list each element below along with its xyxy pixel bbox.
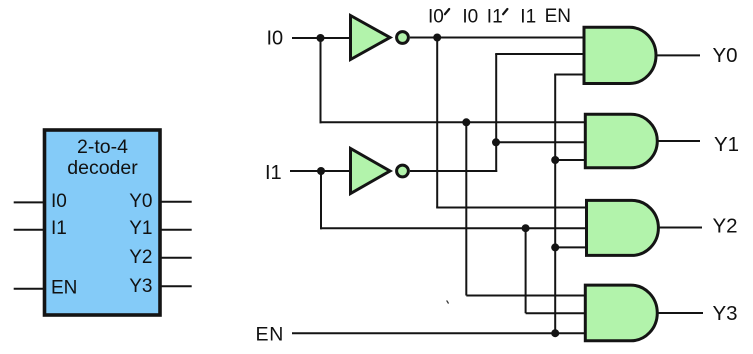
wire G3 output to Y2 xyxy=(658,227,703,229)
AND gate G4 (Y3) xyxy=(585,285,657,341)
stray mark xyxy=(447,301,448,303)
wire G2 output to Y1 xyxy=(657,140,701,142)
wire I1 vertical rail xyxy=(525,228,527,313)
svg-text:Y3: Y3 xyxy=(129,276,152,297)
wire I0 horizontal to AND gate G4 xyxy=(466,295,585,297)
svg-text:Y1: Y1 xyxy=(129,218,152,239)
svg-text:I0: I0 xyxy=(51,191,67,212)
svg-text:2-to-4: 2-to-4 xyxy=(77,136,128,158)
wire I0 horizontal to AND gate G2 xyxy=(320,121,586,123)
junction dot EN on EN line xyxy=(551,329,559,337)
wire I1 horizontal to AND gate G4 xyxy=(526,312,585,314)
svg-text:Y0: Y0 xyxy=(713,44,738,67)
svg-text:I1: I1 xyxy=(520,7,536,28)
inverter U3 bubble xyxy=(397,165,409,177)
wire inverter U3 output (I1' line) xyxy=(410,170,497,172)
wire pin Y3 right xyxy=(161,285,192,287)
svg-text:EN: EN xyxy=(51,278,77,299)
wire I0' vertical rail xyxy=(436,38,438,208)
wire I1' vertical rail xyxy=(495,54,497,172)
svg-text:Y3: Y3 xyxy=(713,302,738,325)
wire I0 vertical rail xyxy=(465,122,467,295)
wire G4 output to Y3 xyxy=(657,312,704,314)
wire pin I1 left xyxy=(14,229,44,231)
junction dot EN to G3 xyxy=(551,243,559,251)
wire I1' horizontal to AND gate G2 xyxy=(496,141,585,143)
svg-text:Y2: Y2 xyxy=(129,247,152,268)
AND gate G2 (Y1) xyxy=(585,114,657,168)
wire inverter U2 output to AND gate G1 (I0' line) xyxy=(410,37,584,39)
AND gate G3 (Y2) xyxy=(587,200,659,255)
svg-text:decoder: decoder xyxy=(67,157,138,179)
wire I1' horizontal to AND gate G1 xyxy=(495,53,584,55)
inverter U3 triangle xyxy=(351,149,391,194)
junction dot on I0 input xyxy=(317,34,325,42)
decoder block U1 (2-to-4 decoder symbol) xyxy=(45,130,161,315)
wire pin EN left xyxy=(14,288,44,290)
svg-text:I1: I1 xyxy=(487,7,503,28)
svg-text:Y2: Y2 xyxy=(713,215,738,238)
prime mark of I0' xyxy=(445,9,449,14)
svg-text:Y1: Y1 xyxy=(714,133,739,156)
svg-text:I1: I1 xyxy=(51,218,67,239)
svg-text:I0: I0 xyxy=(428,7,444,28)
wire EN horizontal to AND gate G1 xyxy=(554,74,584,76)
wire pin Y1 right xyxy=(161,229,192,231)
svg-text:EN: EN xyxy=(256,324,285,346)
wire I1 vertical branch xyxy=(320,171,322,229)
wire I0 vertical branch xyxy=(320,38,322,123)
svg-text:I0: I0 xyxy=(462,7,478,28)
wire I0 input to inverter xyxy=(292,37,350,39)
wire G1 output to Y0 xyxy=(655,54,700,56)
AND gate G1 (Y0) xyxy=(584,27,656,83)
junction dot EN to G2 xyxy=(551,156,559,164)
wire EN vertical rail xyxy=(554,75,556,334)
svg-text:I0: I0 xyxy=(267,28,284,50)
prime mark of I1' xyxy=(503,9,507,14)
inverter U2 triangle xyxy=(351,16,391,60)
wire I1 input to inverter xyxy=(290,170,350,172)
wire pin I0 left xyxy=(14,201,44,203)
wire EN input line xyxy=(292,332,585,334)
junction dot on I1' rail xyxy=(492,138,500,146)
svg-text:I1: I1 xyxy=(265,162,282,184)
wire EN horizontal to AND gate G2 xyxy=(555,159,585,161)
junction dot on I0' line xyxy=(433,34,441,42)
wire EN horizontal to AND gate G3 xyxy=(555,246,586,248)
wire pin Y0 right xyxy=(161,201,192,203)
svg-text:Y0: Y0 xyxy=(129,191,152,212)
svg-text:EN: EN xyxy=(545,6,571,27)
wire pin Y2 right xyxy=(161,257,192,259)
junction dot on I1 line at rail xyxy=(522,224,530,232)
wire I0' horizontal to AND gate G3 xyxy=(436,207,586,209)
junction dot on I0 line at rail xyxy=(462,118,470,126)
inverter U2 bubble xyxy=(397,32,409,44)
wire I1 horizontal to AND gate G3 xyxy=(320,227,586,229)
junction dot on I1 input xyxy=(317,167,325,175)
